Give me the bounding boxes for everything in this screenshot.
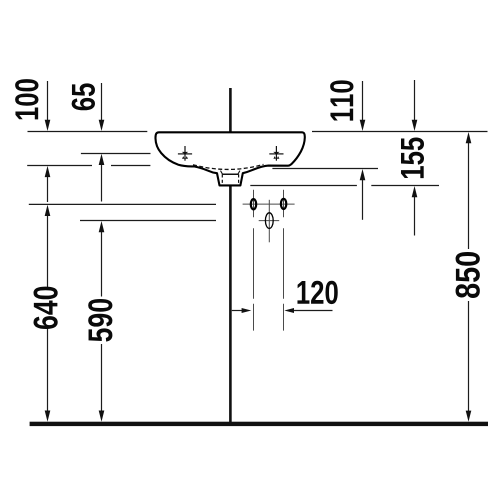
drain connection ellipse	[265, 213, 273, 229]
dim 100 lower arrow	[45, 166, 51, 202]
drain inner dashed left	[221, 174, 223, 185]
rim level line left	[28, 131, 148, 133]
dim 110 upper line and arrow	[360, 81, 366, 131]
drain corner dash right	[238, 171, 240, 175]
rim level line right	[312, 131, 488, 133]
tap hole cross left	[178, 146, 192, 161]
110 level line	[272, 168, 378, 170]
drain corner dash left	[221, 171, 223, 175]
label 100	[15, 79, 38, 119]
label 590	[88, 299, 112, 342]
65 level line	[81, 153, 151, 155]
100 level line seg a	[27, 165, 92, 167]
drain centerline horizontal	[259, 220, 280, 222]
label 120	[297, 281, 337, 304]
label 110	[330, 80, 353, 120]
supply centerline vertical right	[283, 190, 285, 331]
dim 590 line and arrows	[99, 221, 105, 422]
dim 120 line left and arrow	[232, 308, 252, 313]
label 65	[72, 83, 95, 110]
label 155	[401, 137, 424, 178]
dim 155 upper line and arrow	[412, 80, 418, 131]
dim 65 upper line and arrow	[99, 83, 105, 131]
drain inner dashed right	[238, 174, 240, 185]
supply centerline horizontal	[243, 203, 295, 205]
tap hole cross right	[269, 146, 283, 161]
dim 850 line and arrows	[466, 132, 472, 422]
dim 110 lower arrow	[360, 169, 366, 220]
dim 120 line right and arrow	[284, 308, 332, 313]
dim 640 line and arrows	[45, 205, 51, 422]
dim 100 upper line and arrow	[45, 81, 51, 131]
drain top edge	[222, 173, 238, 175]
590 level line	[80, 220, 216, 222]
wall centerline lower segment	[229, 186, 232, 422]
label 850	[456, 252, 480, 298]
wall centerline upper segment	[229, 88, 232, 132]
dim 65 lower arrow	[99, 154, 105, 202]
drain centerline vertical	[268, 200, 270, 243]
floor line	[30, 422, 488, 426]
supply centerline vertical left	[253, 190, 255, 331]
100 level line seg b	[111, 165, 150, 167]
155 level line seg a	[250, 185, 357, 187]
basin inner dashed bowl arc	[193, 164, 264, 169]
640 level line	[29, 203, 216, 205]
washbasin body	[155, 132, 304, 185]
155 level line seg b	[371, 185, 439, 187]
dim 155 lower arrow	[412, 186, 418, 236]
supply connection ellipse left	[251, 199, 256, 209]
supply connection ellipse right	[281, 199, 286, 209]
label 640	[33, 287, 57, 329]
